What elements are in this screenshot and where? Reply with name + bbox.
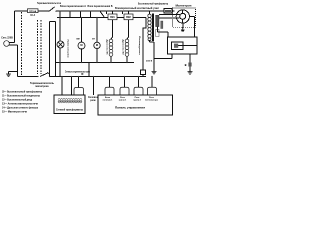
svg-text:✱: ✱: [185, 64, 187, 67]
svg-text:Панель управления: Панель управления: [115, 108, 146, 110]
svg-text:Лампа освещения: Лампа освещения: [67, 40, 69, 59]
svg-text:Блок переключения Б: Блок переключения Б: [88, 6, 113, 8]
svg-text:реле: реле: [90, 100, 96, 102]
svg-text:M: M: [96, 43, 98, 47]
svg-text:Сеть 220В: Сеть 220В: [1, 38, 13, 40]
svg-text:ПР10А: ПР10А: [29, 10, 36, 13]
svg-text:11— Высоковольтный конденсатор: 11— Высоковольтный конденсатор: [2, 94, 41, 97]
svg-text:Блок переключения А: Блок переключения А: [60, 5, 86, 8]
svg-text:Термовыключатель печи: Термовыключатель печи: [37, 3, 61, 5]
svg-text:Сетевые соединительные узлы: Сетевые соединительные узлы: [65, 71, 90, 73]
svg-text:гриля 1: гриля 1: [119, 100, 127, 102]
svg-text:Блокировочный контактный узел: Блокировочный контактный узел: [115, 7, 160, 10]
svg-text:Охлаждение: Охлаждение: [138, 36, 140, 56]
svg-text:2100 В: 2100 В: [146, 61, 153, 63]
svg-text:Магнетрон: Магнетрон: [176, 5, 193, 7]
svg-text:10 А: 10 А: [30, 14, 35, 17]
svg-text:10— Высоковольтный трансформат: 10— Высоковольтный трансформатор: [2, 90, 43, 93]
svg-text:Высоковольтный трансформатор: Высоковольтный трансформатор: [138, 2, 168, 5]
svg-text:M: M: [80, 43, 82, 47]
svg-text:ВК1: ВК1: [110, 16, 115, 19]
svg-text:15— Магнетрон печи: 15— Магнетрон печи: [2, 111, 28, 113]
svg-text:вентилятора: вентилятора: [145, 100, 159, 102]
svg-text:Термовыключатель: Термовыключатель: [30, 83, 55, 85]
svg-text:гриля 2: гриля 2: [133, 100, 141, 102]
svg-text:питания 1: питания 1: [103, 100, 114, 102]
svg-text:14— Дроссели сетевого фильтра: 14— Дроссели сетевого фильтра: [2, 106, 39, 109]
svg-text:12— Высоковольтный диод: 12— Высоковольтный диод: [2, 98, 33, 101]
svg-text:13— Антенна магнетрона печи: 13— Антенна магнетрона печи: [2, 102, 39, 105]
svg-text:магнетрона: магнетрона: [35, 86, 49, 88]
svg-text:Сетевой трансформатор: Сетевой трансформатор: [56, 109, 84, 112]
svg-text:ВМ: ВМ: [76, 38, 79, 40]
svg-text:ВК2: ВК2: [126, 16, 131, 19]
